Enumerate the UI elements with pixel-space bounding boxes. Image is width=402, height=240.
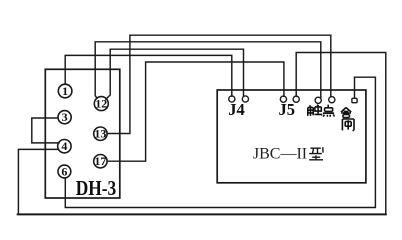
svg-text:17: 17 [94,154,106,168]
label zha character of hezha [342,119,354,131]
svg-text:3: 3 [62,110,68,124]
pin J4 circle right [242,96,248,102]
wire terminal1-to-J4left [65,55,232,96]
pin J4 circle left [229,96,357,104]
terminal circle 17 [94,155,107,168]
pin J5 circle left [280,96,286,102]
svg-text:13: 13 [94,127,106,141]
svg-text:J5: J5 [278,100,295,119]
wire terminal17-to-J5left [107,62,284,161]
label dian character of chudian [323,105,335,117]
terminal circle 3 [58,111,71,124]
terminal circle 1 [58,84,109,178]
pin hezha square [352,98,357,102]
box DH-3 relay outline [45,69,120,198]
label xing character after JBC-II [309,147,323,160]
wire terminal4-left-drop [18,149,58,213]
svg-text:J4: J4 [228,100,245,119]
svg-text:6: 6 [61,165,67,179]
terminal circle 12 [94,97,108,111]
wire terminal12-to-J4right [106,49,244,99]
pin J5 circle right [293,96,299,102]
box JBC-II outline [217,90,366,183]
label J4 [228,100,295,119]
svg-text:1: 1 [62,84,68,98]
wire bottom-long-run [18,213,386,215]
label number 1 [61,84,107,179]
wire terminal3-to-terminal4 bracket [32,118,59,143]
wire terminal13-to-chudian-right [107,35,331,133]
label he character of hezha [341,108,351,118]
pin chudian circle left [315,97,321,103]
wire right-riser-to-J5right [296,53,386,214]
wire terminal6-to-hezha [65,77,375,207]
terminal circle 4 [58,140,71,153]
svg-text:DH-3: DH-3 [76,176,117,200]
pin chudian circle right [329,97,335,103]
wire terminal12-to-chudian-left [95,42,321,99]
terminal circle 13 [94,127,107,140]
label chu character of chudian [308,105,354,131]
terminal circle 6 [58,165,71,178]
svg-text:JBC—II: JBC—II [253,146,307,163]
svg-text:4: 4 [61,139,67,153]
svg-text:12: 12 [95,97,107,111]
